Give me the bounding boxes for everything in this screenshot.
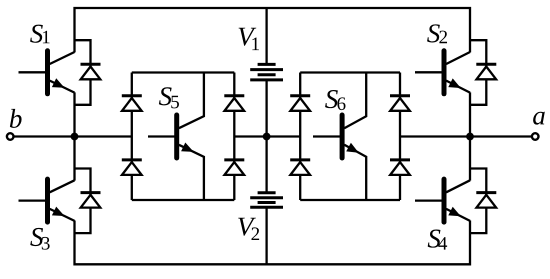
label V1 bbox=[239, 28, 259, 50]
wire right column S2 emitter to S4 collector bbox=[469, 92, 471, 180]
wire center column top bbox=[265, 8, 267, 64]
wire bottom rail bbox=[75, 221, 471, 265]
transistor S4 bbox=[415, 179, 470, 222]
transistor S5 bbox=[148, 73, 204, 201]
node left junction dot bbox=[71, 133, 79, 141]
label S3 bbox=[30, 228, 49, 250]
diode cell1 left bottom bbox=[122, 160, 142, 175]
diode cell1 right bottom bbox=[224, 160, 244, 175]
node center junction dot bbox=[263, 133, 271, 141]
diode D2 bbox=[476, 64, 496, 79]
label S6 bbox=[325, 90, 345, 110]
transistor S2 bbox=[415, 51, 470, 94]
battery V1 bbox=[250, 64, 283, 80]
wire center column bottom bbox=[265, 207, 267, 264]
wire mid rail center bbox=[234, 135, 300, 137]
diode cell2 left bottom bbox=[290, 160, 310, 175]
label b bbox=[10, 109, 22, 128]
label V2 bbox=[238, 218, 259, 240]
diode cell2 right top bbox=[390, 96, 410, 111]
diode cell2 left top bbox=[290, 96, 310, 111]
wire diode loop D2 bbox=[470, 40, 486, 105]
wire center column middle bbox=[265, 80, 267, 193]
diode cell2 right bottom bbox=[390, 160, 410, 175]
wire diode loop D1 bbox=[75, 40, 91, 105]
terminal b bbox=[7, 133, 14, 140]
diode cell1 left top bbox=[122, 96, 142, 111]
wire H-bridge cell 1 frame bbox=[132, 73, 235, 201]
label S2 bbox=[427, 24, 447, 43]
wire mid rail left (node b) bbox=[14, 135, 132, 137]
wire mid rail right (node a) bbox=[400, 135, 532, 137]
battery V2 bbox=[250, 193, 283, 207]
node right junction dot bbox=[466, 133, 474, 141]
wire left column S1 emitter to S3 collector bbox=[73, 92, 75, 180]
diode D4 bbox=[476, 193, 496, 208]
diode D3 bbox=[81, 193, 101, 208]
wire diode loop D3 bbox=[75, 169, 91, 234]
label S4 bbox=[428, 230, 447, 250]
transistor S1 bbox=[19, 51, 75, 94]
wire H-bridge cell 2 frame bbox=[300, 73, 400, 201]
label S1 bbox=[30, 25, 49, 44]
label S5 bbox=[159, 87, 179, 108]
diode cell1 right top bbox=[224, 96, 244, 111]
transistor S3 bbox=[19, 179, 75, 222]
transistor S6 bbox=[313, 73, 366, 201]
wire diode loop D4 bbox=[470, 169, 486, 234]
terminal a bbox=[532, 133, 539, 140]
diode D1 bbox=[81, 64, 101, 79]
label a bbox=[533, 112, 545, 125]
wire top rail bbox=[75, 8, 471, 52]
